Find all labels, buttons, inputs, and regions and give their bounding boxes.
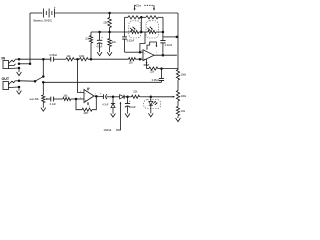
label OUT: [2, 77, 10, 81]
resistor R13 22k (Vref feed to signal row): [85, 32, 92, 59]
potentiometer VR1b (gang B): [146, 16, 158, 19]
op-amp U1a V- stub: [87, 102, 89, 106]
wire R7 to op2 plus: [136, 58, 140, 60]
wire output tip to switch: [19, 80, 35, 82]
svg-text:5: 5: [141, 57, 142, 59]
junction +9V column tap: [176, 36, 179, 39]
photoresistor LDR2: [147, 27, 156, 34]
junction switch throw wet: [42, 81, 45, 84]
svg-text:4M7: 4M7: [84, 112, 89, 115]
junction switch throw dry: [42, 75, 45, 78]
potentiometer VR2 sens: [30, 95, 51, 103]
svg-text:IN: IN: [2, 56, 6, 60]
op-amp U1b power bridge: [147, 42, 157, 50]
junction LED node: [150, 96, 153, 99]
ground D1: [111, 112, 116, 117]
junction output sleeve: [18, 86, 21, 89]
ground output jack: [17, 89, 22, 94]
connector J1 input jack: [3, 59, 19, 68]
connector J2 output jack: [3, 81, 19, 90]
resistor R7 22k (to op2 +): [129, 58, 136, 65]
wire C1 to R1: [54, 58, 66, 60]
junction Vref row at divider: [108, 31, 111, 34]
junction envelope node A: [112, 96, 115, 99]
capacitor C1 0.05uF (input): [49, 54, 57, 62]
wire input tip row: [19, 58, 51, 60]
wire input ring to battery: [19, 63, 30, 65]
svg-text:4: 4: [148, 64, 149, 66]
ground Vref cap: [97, 50, 102, 55]
svg-text:22k: 22k: [103, 20, 108, 24]
junction switch common: [34, 80, 37, 83]
svg-text:7: 7: [156, 52, 157, 54]
wire column R10-R11: [177, 101, 179, 106]
capacitor C8 10uF: [125, 97, 136, 112]
svg-text:4: 4: [89, 106, 90, 108]
resistor R6 4M7 feedback: [76, 96, 96, 115]
svg-text:+: +: [54, 5, 56, 9]
svg-text:1: 1: [95, 94, 96, 96]
wire pot row right drop: [162, 17, 164, 32]
label 1N914 with leader: [104, 102, 122, 132]
capacitor C3 0.02uF: [160, 32, 172, 55]
junction pot row middle: [140, 16, 143, 19]
svg-text:8: 8: [89, 88, 90, 90]
junction input sleeve: [18, 67, 21, 70]
wire top +9V rail (battery to right column): [30, 12, 178, 14]
svg-text:100k: 100k: [79, 55, 85, 58]
junction top rail / 22k divider: [108, 12, 111, 15]
resistor R4 22k (Vref to gnd): [108, 32, 117, 50]
svg-text:Battery_9VDC: Battery_9VDC: [34, 18, 52, 22]
op-amp U1b V- stub: [146, 59, 148, 69]
wire op2 minus jog up to LDR middle: [140, 32, 145, 52]
wire pot row middle to LDR row: [140, 17, 142, 32]
wire dual-pot row: [125, 16, 163, 18]
wire R2 to Vref corner: [88, 58, 129, 60]
junction battery- at ring: [29, 63, 32, 66]
svg-text:22m: 22m: [136, 5, 141, 8]
capacitor C2 0.02uF: [122, 37, 140, 52]
resistor R9 100k: [176, 70, 186, 81]
resistor R1 10k: [66, 55, 74, 61]
wire R5 to op1 plus: [71, 98, 84, 100]
capacitor C5 4.7uF (Vref bypass): [96, 32, 103, 50]
svg-text:4.7uF: 4.7uF: [96, 45, 103, 48]
junction LDR right node: [162, 31, 165, 34]
junction input tip: [18, 58, 21, 61]
resistor R8 22k (op2 V- row): [147, 67, 178, 74]
junction 22k row / 0.05uF cap: [160, 67, 163, 70]
capacitor C6 0.05uF: [152, 69, 164, 83]
svg-text:2: 2: [80, 98, 81, 100]
resistor R12 22k: [128, 91, 140, 99]
wire op1 minus feed: [78, 59, 85, 92]
junction envelope node B: [126, 96, 129, 99]
wire op1 output: [94, 95, 103, 98]
svg-text:sens 50k: sens 50k: [30, 99, 40, 101]
wire pot row left drop / cap C2 feed: [124, 17, 126, 37]
battery BT1 9V: [44, 5, 57, 17]
wire envelope to depth pot wiper: [151, 96, 175, 98]
svg-text:100k: 100k: [181, 73, 187, 76]
LED D3: [149, 97, 158, 112]
svg-text:10uF: 10uF: [130, 106, 136, 109]
junction LDR middle node: [140, 31, 143, 34]
junction signal row / Vref drop: [90, 58, 93, 61]
ground input jack: [17, 70, 22, 75]
svg-text:6: 6: [141, 50, 142, 52]
junction op1 plus node: [75, 98, 78, 101]
resistor R2 100k: [79, 55, 88, 61]
svg-text:0.02uF: 0.02uF: [165, 44, 173, 47]
capacitor C4 0.1uF: [50, 97, 57, 107]
resistor R11 10k: [176, 106, 185, 115]
label U1b 4558: [143, 64, 149, 67]
diode D2 1N914 (series): [113, 95, 128, 99]
svg-text:OUT: OUT: [2, 77, 10, 81]
ground C8: [125, 112, 130, 117]
junction op2 output / C3: [162, 54, 165, 57]
wire C3 top to +9V column: [163, 36, 177, 38]
op-amp U1b: [143, 50, 154, 61]
switch S1 blade: [35, 77, 42, 81]
wire pot to ground: [42, 103, 44, 106]
wire op2 output: [154, 54, 177, 56]
svg-text:4.7uF: 4.7uF: [102, 103, 109, 106]
wire column R11 to ground: [177, 115, 179, 118]
optocoupler housing U2b (dashed): [146, 21, 158, 38]
svg-text:0.05uF: 0.05uF: [152, 79, 160, 82]
wire op2 minus input: [140, 51, 143, 53]
op-amp U1a: [84, 90, 94, 103]
label IN: [2, 56, 6, 60]
svg-text:0.02uF: 0.02uF: [127, 39, 135, 42]
ground Vref divider: [107, 50, 112, 55]
wire input sleeve to ground: [18, 68, 20, 70]
photoresistor LDR1: [130, 27, 139, 34]
junction Vref row at C5: [98, 31, 101, 34]
wire op2 plus input: [140, 58, 143, 60]
wire C4 to R5: [54, 98, 63, 100]
resistor R5 10k: [63, 95, 71, 101]
wire column R9-R10: [177, 80, 179, 91]
wire output sleeve ground: [18, 87, 20, 89]
op-amp U1a pin numbers: [80, 88, 96, 108]
potentiometer R10 100k (depth): [176, 91, 186, 102]
wire dry throw to input row: [42, 59, 44, 76]
wire effect output to bypass switch: [43, 81, 161, 83]
junction output tip: [18, 80, 21, 83]
svg-text:0.1uF: 0.1uF: [50, 103, 57, 106]
optocoupler housing U2a (dashed): [129, 21, 141, 38]
wire R1 to R2: [74, 58, 80, 60]
junction op1 output: [95, 95, 98, 98]
wire R12 to LED node: [140, 96, 151, 98]
junction op2 minus node: [139, 51, 142, 54]
svg-text:1N914: 1N914: [104, 128, 112, 132]
junction op2 plus node: [139, 58, 142, 61]
ground sens pot: [41, 106, 46, 111]
label Battery_9VDC: [34, 18, 52, 22]
junction R1/R2 node (to op1 -): [76, 58, 79, 61]
capacitor C7 4.7uF (output coupling): [100, 92, 113, 107]
resistor R3 22k (9V to Vref): [103, 13, 111, 32]
svg-text:0.05uF: 0.05uF: [49, 54, 57, 57]
LED housing (dashed): [144, 100, 161, 109]
svg-text:3: 3: [80, 91, 81, 93]
wire wet node down to pot: [42, 82, 44, 95]
diode D1 1N914 (shunt): [111, 97, 115, 112]
gang linkage bracket with label 22m: [134, 5, 155, 11]
ground LED: [148, 112, 153, 117]
junction tip row / pot feed: [42, 58, 45, 61]
wire Vref row: [91, 31, 163, 33]
wire battery negative drop to input jack ring: [29, 13, 31, 64]
wire +9V right column: [177, 13, 179, 70]
junction input ring: [18, 63, 21, 66]
svg-text:100k: 100k: [181, 95, 187, 98]
op-amp U1b pin numbers: [141, 50, 157, 66]
ground right column: [176, 116, 181, 121]
op-amp U1a V+ stub: [87, 87, 89, 90]
potentiometer VR1a (gang A): [128, 16, 140, 19]
